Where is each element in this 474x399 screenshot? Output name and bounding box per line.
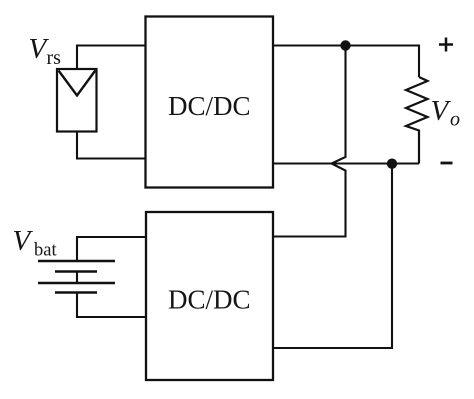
svg-text:bat: bat bbox=[34, 241, 57, 261]
svg-text:o: o bbox=[450, 109, 460, 131]
svg-text:DC/DC: DC/DC bbox=[168, 285, 251, 315]
svg-text:V: V bbox=[13, 225, 34, 257]
svg-text:V: V bbox=[431, 95, 452, 127]
svg-text:rs: rs bbox=[47, 47, 62, 69]
svg-text:DC/DC: DC/DC bbox=[168, 91, 251, 121]
